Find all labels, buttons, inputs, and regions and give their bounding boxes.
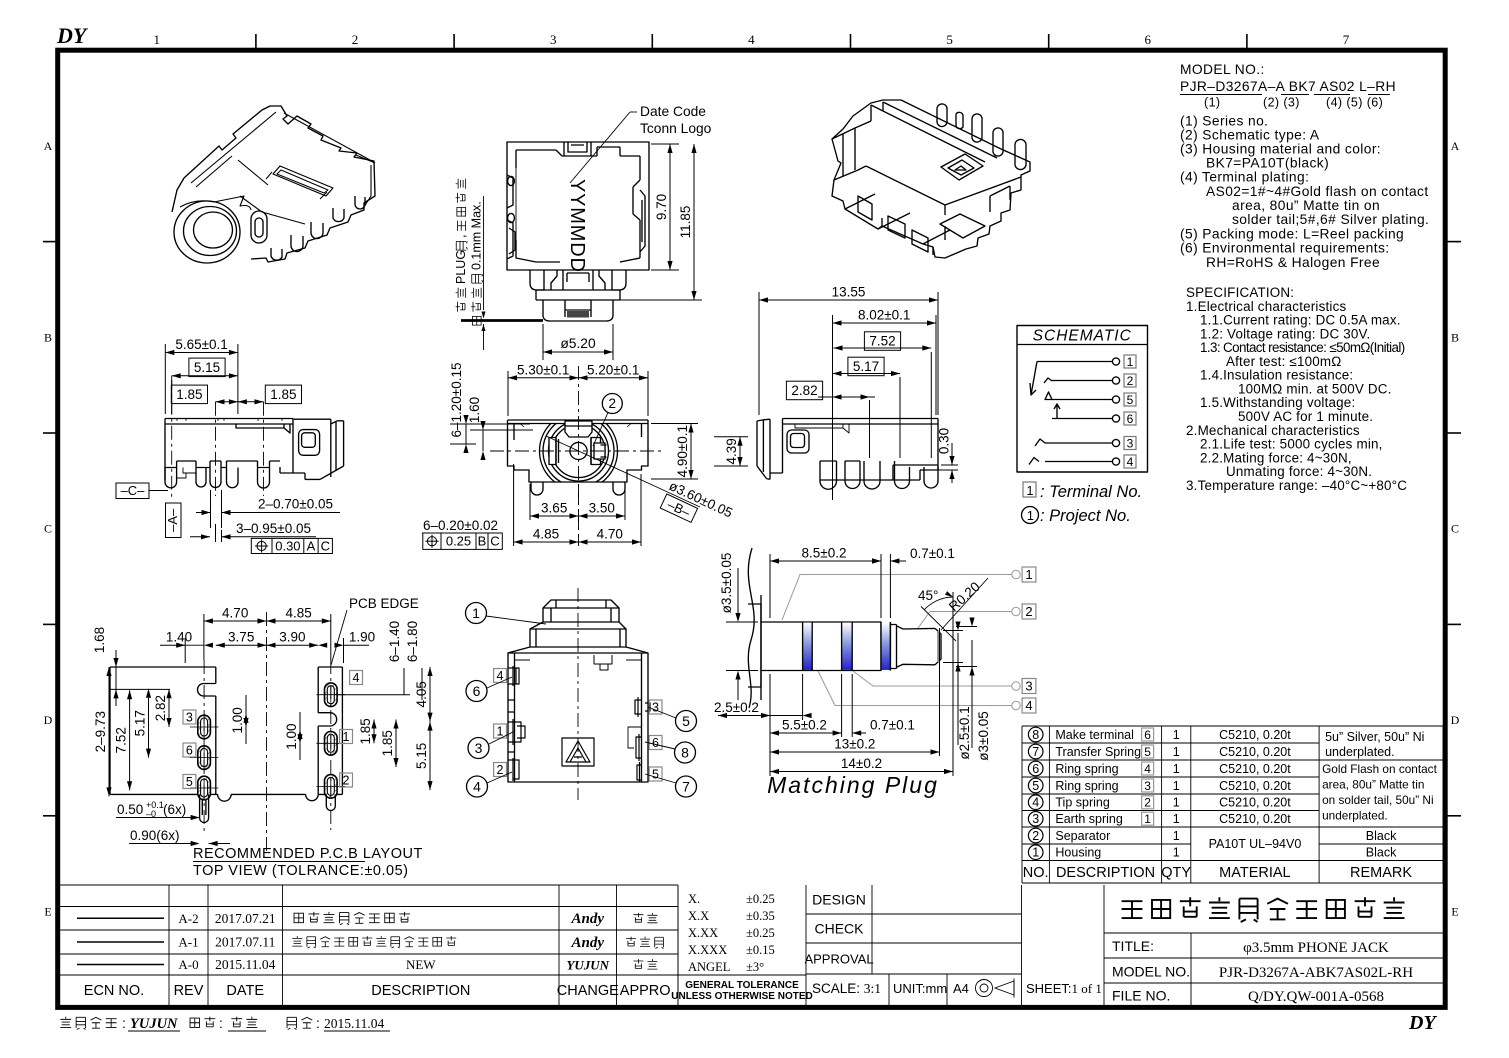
svg-text:4: 4	[1032, 796, 1039, 810]
svg-text:±0.15: ±0.15	[746, 943, 775, 957]
svg-text:TOP VIEW (TOLRANCE:±0.05): TOP VIEW (TOLRANCE:±0.05)	[193, 863, 408, 879]
legs right view	[820, 467, 938, 489]
svg-text:X.XX: X.XX	[688, 926, 718, 940]
pcb top dims row1	[204, 614, 331, 660]
svg-text:After test: ≤100mΩ: After test: ≤100mΩ	[1226, 354, 1341, 369]
svg-text:2: 2	[1144, 796, 1151, 810]
matching plug leader wires	[782, 570, 1020, 709]
svg-text::: :	[122, 1016, 126, 1031]
svg-text:1: 1	[343, 730, 350, 744]
svg-text:B: B	[44, 330, 52, 344]
svg-text:2: 2	[352, 32, 359, 47]
svg-text:14±0.2: 14±0.2	[841, 756, 882, 771]
dim 13.55	[759, 292, 938, 415]
svg-text:3: 3	[1025, 679, 1032, 694]
svg-text:1: 1	[1173, 846, 1180, 860]
svg-text:Transfer Spring: Transfer Spring	[1055, 745, 1141, 759]
svg-text:area, 80u” Matte tin on: area, 80u” Matte tin on	[1232, 198, 1380, 213]
svg-text:5: 5	[1032, 779, 1039, 793]
pcb edge thick line	[461, 319, 543, 322]
svg-text:Black: Black	[1366, 846, 1397, 860]
svg-text:8: 8	[1032, 728, 1039, 742]
svg-text:underplated.: underplated.	[1322, 809, 1388, 823]
svg-text:8.5±0.2: 8.5±0.2	[802, 546, 847, 561]
ruler row ticks left/right	[43, 242, 1461, 816]
svg-text:REMARK: REMARK	[1350, 865, 1412, 881]
general tolerance box	[678, 885, 806, 1005]
svg-text:1.90: 1.90	[349, 630, 375, 645]
svg-text:DESIGN: DESIGN	[812, 892, 866, 908]
svg-text:1: 1	[1173, 745, 1180, 759]
svg-text:1.00: 1.00	[230, 707, 245, 733]
svg-text:3: 3	[186, 711, 193, 725]
svg-text:DESCRIPTION: DESCRIPTION	[1056, 865, 1155, 881]
svg-text:3: 3	[475, 740, 483, 756]
dim 2-0.70	[211, 490, 222, 528]
svg-text:Andy: Andy	[570, 935, 604, 951]
svg-text:Unmating force: 4~30N.: Unmating force: 4~30N.	[1226, 464, 1372, 479]
svg-text:1: 1	[1025, 567, 1032, 582]
svg-text:1: 1	[1173, 812, 1180, 826]
ruler row letters	[44, 139, 1460, 919]
svg-text:(5) Packing mode: L=Reel pack: (5) Packing mode: L=Reel packing	[1180, 227, 1404, 242]
svg-text:SHEET:1 of 1: SHEET:1 of 1	[1026, 981, 1102, 996]
svg-text:5.15: 5.15	[414, 743, 429, 769]
svg-text:2.Mechanical characteristics: 2.Mechanical characteristics	[1186, 423, 1360, 438]
iso knob	[251, 211, 267, 243]
svg-text:3: 3	[1127, 436, 1134, 450]
svg-text:6: 6	[1127, 412, 1134, 426]
svg-text:3.Temperature range: –40°C~+8: 3.Temperature range: –40°C~+80°C	[1186, 478, 1407, 493]
svg-text:3: 3	[652, 701, 659, 715]
svg-text:5.5±0.2: 5.5±0.2	[782, 718, 827, 733]
svg-text:2: 2	[609, 396, 617, 411]
svg-text:YUJUN: YUJUN	[566, 958, 609, 973]
svg-text:2017.07.11: 2017.07.11	[215, 935, 275, 950]
barrel hump left	[832, 121, 871, 180]
side contacts	[549, 438, 556, 465]
svg-text:A: A	[44, 139, 53, 153]
svg-text:1.4.Insulation resistance:: 1.4.Insulation resistance:	[1200, 368, 1353, 383]
svg-text:2: 2	[1127, 374, 1134, 388]
svg-text:MODEL NO.:: MODEL NO.:	[1180, 62, 1265, 77]
note leader arrow	[482, 312, 486, 319]
title block	[1104, 933, 1443, 1005]
svg-text:YYMMDD: YYMMDD	[566, 179, 588, 273]
dim 4.39	[714, 437, 748, 466]
svg-text:: Terminal No.: : Terminal No.	[1040, 483, 1142, 501]
svg-text:C5210, 0.20t: C5210, 0.20t	[1219, 762, 1291, 776]
svg-text:CHANGE: CHANGE	[557, 983, 619, 999]
left side view body	[165, 419, 344, 489]
svg-text:6–1.80: 6–1.80	[405, 621, 420, 662]
svg-text:±3°: ±3°	[746, 960, 764, 974]
svg-text:1.85: 1.85	[176, 387, 202, 402]
svg-text:4: 4	[353, 671, 360, 685]
company name (CJK strokes)	[1122, 897, 1405, 922]
svg-text:5.65±0.1: 5.65±0.1	[175, 337, 227, 352]
svg-text:MODEL NO.: MODEL NO.	[1112, 964, 1190, 980]
svg-text:(1) Series no.: (1) Series no.	[1180, 114, 1268, 129]
svg-text:X.X: X.X	[688, 909, 709, 923]
callout side view centerline	[577, 588, 579, 800]
top tab	[564, 142, 591, 156]
svg-text:Ring spring: Ring spring	[1055, 779, 1118, 793]
first angle projection symbol	[976, 979, 1015, 998]
svg-text:SCALE: 3:1: SCALE: 3:1	[812, 981, 881, 996]
svg-text:ø3±0.05: ø3±0.05	[976, 711, 991, 760]
pad centerline verticals	[203, 660, 205, 832]
iso pins	[311, 222, 323, 239]
svg-text::: :	[219, 1016, 223, 1031]
design check approval block	[806, 885, 1104, 1005]
svg-text:B: B	[1451, 330, 1459, 344]
svg-text:5.30±0.1: 5.30±0.1	[517, 362, 569, 377]
ruler column numbers	[154, 32, 1350, 47]
svg-text:REV: REV	[174, 983, 204, 999]
svg-text:TITLE:: TITLE:	[1112, 938, 1154, 954]
dim 5.17 boxed	[848, 357, 884, 376]
45 deg chamfer construction	[921, 578, 988, 641]
svg-text:X.XXX: X.XXX	[688, 943, 727, 957]
svg-text:6: 6	[473, 683, 481, 699]
svg-text:3.50: 3.50	[589, 501, 615, 516]
neck and tip	[890, 622, 896, 671]
svg-text:A-2: A-2	[178, 911, 198, 926]
dim phi 5.20	[543, 324, 613, 360]
dim 9.70	[651, 144, 679, 270]
bottom dims 3.65 3.50	[530, 484, 625, 520]
svg-text:1: 1	[497, 725, 504, 739]
svg-text:UNLESS OTHERWISE NOTED: UNLESS OTHERWISE NOTED	[671, 991, 813, 1002]
svg-text:area, 80u” Matte tin: area, 80u” Matte tin	[1322, 778, 1424, 792]
svg-text:C: C	[321, 539, 330, 554]
centerlines	[578, 366, 580, 545]
svg-text:1.2: Voltage rating: DC 30V.: 1.2: Voltage rating: DC 30V.	[1200, 326, 1370, 341]
vertical CJK note column left	[454, 179, 468, 312]
pads left column	[190, 715, 219, 739]
svg-text:Gold Flash on contact: Gold Flash on contact	[1322, 762, 1437, 776]
svg-text:CHECK: CHECK	[814, 921, 864, 937]
svg-text:4.05: 4.05	[414, 681, 429, 707]
svg-text:13±0.2: 13±0.2	[834, 737, 875, 752]
svg-text:4: 4	[1144, 762, 1151, 776]
svg-text:(1): (1)	[1204, 96, 1220, 110]
svg-text:2.5±0.2: 2.5±0.2	[714, 700, 759, 715]
svg-text:1: 1	[1173, 762, 1180, 776]
svg-text:1.85: 1.85	[380, 730, 395, 756]
svg-text:Q/DY.QW-001A-0568: Q/DY.QW-001A-0568	[1248, 989, 1384, 1005]
lower dims	[770, 674, 803, 776]
svg-text:4.70: 4.70	[222, 606, 248, 621]
svg-text:2015.11.04: 2015.11.04	[215, 957, 275, 972]
svg-text:C5210, 0.20t: C5210, 0.20t	[1219, 745, 1291, 759]
svg-text:AS02=1#~4#Gold flash on contac: AS02=1#~4#Gold flash on contact	[1206, 184, 1429, 199]
svg-text:6–0.20±0.02: 6–0.20±0.02	[423, 518, 498, 533]
svg-text:MATERIAL: MATERIAL	[1219, 865, 1290, 881]
svg-text:0.30: 0.30	[275, 539, 300, 554]
position tolerance frame 0.30 A C	[251, 538, 332, 553]
svg-text:D: D	[1451, 713, 1460, 727]
dim 8.02	[833, 315, 937, 500]
small 1.00 dims	[230, 707, 249, 733]
svg-text:4.85: 4.85	[533, 527, 559, 542]
dash-dot pin centerlines	[172, 376, 264, 500]
callout side view body	[508, 600, 650, 782]
svg-text:A-1: A-1	[178, 935, 198, 950]
svg-text:4: 4	[748, 32, 755, 47]
svg-text:A4: A4	[953, 981, 969, 996]
svg-text:2: 2	[343, 774, 350, 788]
svg-text:1.60: 1.60	[467, 397, 482, 423]
svg-text:ø2.5±0.1: ø2.5±0.1	[957, 706, 972, 759]
svg-text:(3) Housing material and colo: (3) Housing material and color:	[1180, 142, 1381, 157]
svg-text:YUJUN: YUJUN	[130, 1016, 178, 1032]
svg-text:1: 1	[1173, 796, 1180, 810]
svg-text:5.17: 5.17	[133, 710, 148, 736]
schematic terminal lines	[1037, 358, 1120, 465]
scale row	[889, 974, 947, 1005]
svg-text:C: C	[1451, 522, 1459, 536]
schematic box	[1017, 326, 1148, 473]
svg-text:6–1.20±0.15: 6–1.20±0.15	[449, 363, 464, 438]
svg-text:APPRO.: APPRO.	[620, 983, 675, 999]
svg-text:PCB EDGE: PCB EDGE	[349, 596, 419, 611]
top face	[871, 102, 997, 162]
right pins	[972, 114, 982, 142]
svg-text:Matching Plug: Matching Plug	[767, 772, 939, 798]
svg-text:C5210, 0.20t: C5210, 0.20t	[1219, 728, 1291, 742]
isometric view top-left	[172, 106, 375, 263]
svg-text:6: 6	[186, 744, 193, 758]
svg-text:45°: 45°	[918, 588, 938, 603]
svg-text:4: 4	[1127, 455, 1134, 469]
svg-text:4: 4	[1025, 698, 1032, 713]
svg-text:QTY: QTY	[1161, 865, 1191, 881]
svg-text:UNIT:mm: UNIT:mm	[893, 981, 947, 996]
dim 7.52 boxed	[864, 332, 900, 351]
svg-text:5.17: 5.17	[853, 359, 879, 374]
right vertical dims	[358, 718, 377, 744]
svg-text:0.1mm Max.: 0.1mm Max.	[470, 201, 484, 270]
svg-text:(2) Schematic type: A: (2) Schematic type: A	[1180, 128, 1320, 143]
iso top face rim lines	[191, 112, 276, 183]
svg-text:8.02±0.1: 8.02±0.1	[858, 308, 910, 323]
svg-text:5.15: 5.15	[194, 360, 220, 375]
dim 5.15 boxed	[189, 358, 225, 377]
ruler column ticks	[256, 34, 1247, 48]
legs with round tips	[165, 468, 177, 488]
svg-text:5u” Silver, 50u” Ni: 5u” Silver, 50u” Ni	[1325, 730, 1424, 744]
iso top face slot	[273, 166, 333, 196]
svg-text:FILE NO.: FILE NO.	[1112, 988, 1170, 1004]
svg-text:C: C	[44, 522, 52, 536]
svg-text:RH=RoHS & Halogen Free: RH=RoHS & Halogen Free	[1206, 255, 1380, 270]
model number text block	[1180, 62, 1429, 270]
callout 2	[602, 394, 622, 414]
svg-text:3–0.95±0.05: 3–0.95±0.05	[236, 521, 311, 536]
iso barrel rings	[174, 201, 240, 263]
svg-text:ECN NO.: ECN NO.	[84, 983, 144, 999]
svg-text:,: ,	[454, 235, 468, 238]
svg-text:(2) (3): (2) (3)	[1263, 96, 1300, 110]
bottom dims 4.85 4.70	[514, 464, 641, 546]
right side view body	[757, 419, 938, 481]
svg-text:6: 6	[1145, 32, 1152, 47]
svg-text:Tip spring: Tip spring	[1055, 796, 1109, 810]
svg-text:5: 5	[946, 32, 953, 47]
svg-text:E: E	[1451, 905, 1458, 919]
dim 0.30	[923, 443, 958, 483]
svg-text:DESCRIPTION: DESCRIPTION	[371, 983, 470, 999]
svg-text:5.20±0.1: 5.20±0.1	[587, 362, 639, 377]
top-center bottom view body	[507, 142, 649, 321]
center front view body	[508, 420, 649, 482]
svg-text:C5210, 0.20t: C5210, 0.20t	[1219, 796, 1291, 810]
svg-text:1: 1	[154, 32, 161, 47]
svg-text:7: 7	[1032, 745, 1039, 759]
svg-text:X.: X.	[688, 892, 700, 906]
svg-text:Housing: Housing	[1055, 846, 1101, 860]
svg-text:0.30: 0.30	[937, 428, 952, 454]
svg-text:2: 2	[1025, 604, 1032, 619]
svg-text:5: 5	[1127, 393, 1134, 407]
pad5 lower slot	[200, 794, 209, 822]
svg-text:solder tail;5#,6# Silver plati: solder tail;5#,6# Silver plating.	[1232, 212, 1429, 227]
svg-text:1: 1	[1027, 508, 1034, 523]
svg-text:PJR-D3267A-ABK7AS02L-RH: PJR-D3267A-ABK7AS02L-RH	[1219, 965, 1413, 981]
svg-text:1.3: Contact resistance: ≤50mΩ: 1.3: Contact resistance: ≤50mΩ(Initial)	[1200, 340, 1405, 355]
svg-text:A-0: A-0	[178, 957, 198, 972]
svg-text:Date Code: Date Code	[640, 104, 706, 119]
svg-text:7: 7	[1343, 32, 1350, 47]
svg-text:6: 6	[1144, 728, 1151, 742]
svg-text:7.52: 7.52	[869, 334, 895, 349]
pad number boxes left	[183, 710, 196, 725]
revision rows content	[77, 917, 164, 919]
svg-text:±0.35: ±0.35	[746, 909, 775, 923]
svg-text:Earth spring: Earth spring	[1055, 812, 1122, 826]
callout circles right	[649, 700, 662, 715]
svg-text:7.52: 7.52	[114, 727, 129, 753]
svg-text:1.68: 1.68	[92, 627, 107, 653]
svg-text:C: C	[490, 534, 499, 549]
svg-text:E: E	[44, 905, 51, 919]
svg-text:0.7±0.1: 0.7±0.1	[910, 546, 955, 561]
break squiggle and washer	[748, 548, 754, 708]
vertical CJK note column right	[470, 201, 484, 325]
svg-text:5: 5	[682, 713, 690, 729]
svg-text:SCHEMATIC: SCHEMATIC	[1033, 328, 1132, 345]
svg-text:2.82: 2.82	[791, 383, 817, 398]
svg-text:1.40: 1.40	[166, 630, 192, 645]
svg-text:DY: DY	[56, 23, 89, 48]
svg-text:7: 7	[682, 778, 690, 794]
svg-text:0.50: 0.50	[117, 802, 143, 817]
svg-text:1: 1	[1173, 779, 1180, 793]
datum C box	[116, 483, 168, 499]
svg-text:2.82: 2.82	[153, 695, 168, 721]
svg-text:ø5.20: ø5.20	[560, 336, 596, 351]
svg-text:Make terminal: Make terminal	[1055, 728, 1134, 742]
callout circles left	[466, 603, 487, 624]
svg-text:6: 6	[652, 736, 659, 750]
svg-text:6–1.40: 6–1.40	[387, 621, 402, 662]
svg-text:NEW: NEW	[406, 957, 436, 972]
svg-text:4.39: 4.39	[724, 438, 739, 464]
svg-text:APPROVAL: APPROVAL	[804, 952, 873, 967]
svg-text:1.5.Withstanding voltage:: 1.5.Withstanding voltage:	[1200, 395, 1355, 410]
svg-text:5: 5	[186, 775, 193, 789]
svg-text:ø3.5±0.05: ø3.5±0.05	[719, 553, 734, 614]
A logo	[562, 738, 594, 766]
svg-text:PLUG: PLUG	[454, 250, 468, 284]
dim 11.85	[616, 299, 702, 301]
svg-text:4: 4	[473, 778, 481, 794]
svg-text:BK7=PA10T(black): BK7=PA10T(black)	[1206, 156, 1329, 171]
svg-text:(4) Terminal plating:: (4) Terminal plating:	[1180, 170, 1309, 185]
svg-text:GENERAL TOLERANCE: GENERAL TOLERANCE	[685, 980, 799, 991]
svg-text:φ3.5mm PHONE JACK: φ3.5mm PHONE JACK	[1243, 940, 1389, 956]
svg-text:2: 2	[1032, 829, 1039, 843]
svg-text:3.90: 3.90	[279, 630, 305, 645]
section line B	[546, 436, 648, 483]
barrel right section	[293, 419, 344, 479]
svg-text:Separator: Separator	[1055, 829, 1110, 843]
svg-text:4.70: 4.70	[597, 527, 623, 542]
dim 2.82 boxed	[786, 381, 822, 400]
svg-text:(4) (5) (6): (4) (5) (6)	[1326, 96, 1383, 110]
left terminal features	[508, 666, 519, 686]
original design signature line	[60, 1017, 116, 1030]
svg-text:D: D	[44, 713, 53, 727]
svg-text:A: A	[307, 539, 316, 554]
dims 5.30 5.20	[508, 371, 648, 416]
svg-text:3: 3	[1144, 779, 1151, 793]
svg-text:1: 1	[1127, 355, 1134, 369]
svg-text:Andy: Andy	[570, 911, 604, 927]
svg-text:4.85: 4.85	[285, 606, 311, 621]
svg-text:0.25: 0.25	[446, 534, 471, 549]
datum A box	[165, 503, 181, 538]
svg-text:±0.25: ±0.25	[746, 926, 775, 940]
svg-text:(6x): (6x)	[163, 802, 186, 817]
svg-text:: Project No.: : Project No.	[1040, 507, 1131, 525]
right side contact window	[640, 190, 645, 252]
svg-text:on solder tail, 50u” Ni: on solder tail, 50u” Ni	[1322, 793, 1433, 807]
svg-text:5: 5	[1144, 745, 1151, 759]
pad number boxes right	[350, 671, 363, 686]
svg-text:–A–: –A–	[165, 508, 180, 532]
svg-text:1: 1	[1173, 829, 1180, 843]
body bottom / legs strip	[165, 461, 293, 480]
specification text block	[1186, 285, 1407, 493]
svg-text:DATE: DATE	[226, 983, 264, 999]
svg-text:1.Electrical characteristics: 1.Electrical characteristics	[1186, 299, 1346, 314]
pcb top dims row2	[185, 638, 343, 663]
A logo on face	[941, 154, 983, 180]
svg-text:1: 1	[1027, 484, 1034, 498]
phi 2.5 and phi 3	[943, 631, 963, 746]
svg-text:2015.11.04: 2015.11.04	[324, 1016, 384, 1031]
svg-text:6: 6	[1032, 762, 1039, 776]
svg-text:B: B	[478, 534, 487, 549]
svg-text:SPECIFICATION:: SPECIFICATION:	[1186, 285, 1294, 300]
svg-text:1: 1	[472, 605, 480, 621]
pcb outline left block	[110, 667, 342, 801]
cylinder	[761, 622, 881, 671]
svg-text:1: 1	[1173, 728, 1180, 742]
